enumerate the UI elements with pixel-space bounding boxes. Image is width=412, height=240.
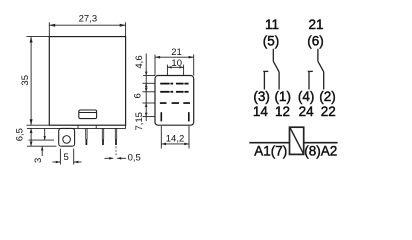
contact pole 1 NC terminal 12: [278, 72, 280, 90]
dimension 27,3: [49, 22, 125, 36]
dimension 3: [29, 129, 55, 156]
base tick 2: [95, 125, 97, 128]
coil wire right: [304, 142, 338, 144]
pin P2 tip: [102, 139, 104, 145]
label window on body: [79, 110, 97, 119]
svg-text:11: 11: [265, 17, 279, 32]
svg-text:24: 24: [299, 104, 315, 119]
relay body front view: [49, 37, 125, 126]
mounting tab: [59, 128, 75, 146]
svg-text:12: 12: [275, 104, 290, 119]
pin P1 tip: [86, 139, 88, 145]
pin P3 shaft: [115, 128, 116, 139]
svg-text:10: 10: [171, 58, 182, 69]
contact pole 2 blade: [318, 61, 324, 72]
contact pole 2 NC terminal 22: [323, 72, 325, 90]
base tick left corner: [125, 125, 127, 128]
dimension 21: [155, 55, 194, 76]
svg-text:0,5: 0,5: [128, 153, 141, 164]
svg-text:21: 21: [308, 17, 323, 32]
svg-text:4,6: 4,6: [134, 55, 145, 68]
dimension 6,5: [27, 128, 57, 146]
svg-text:14,2: 14,2: [166, 133, 185, 144]
bottom view flange bar left: [161, 112, 163, 121]
pin P1 shaft: [86, 128, 87, 139]
bottom view pin row 3: [160, 102, 190, 104]
svg-text:14: 14: [253, 104, 269, 119]
svg-text:7,15: 7,15: [134, 112, 145, 131]
base tick 1: [77, 125, 79, 128]
pin P3 dashed extension: [115, 146, 117, 156]
dimension 5: [53, 149, 82, 165]
contact pole 1 NO terminal 14: [263, 71, 265, 89]
svg-text:6: 6: [133, 93, 144, 98]
relay bottom view body: [155, 76, 194, 126]
dimension 35: [27, 37, 50, 126]
svg-text:(2): (2): [319, 89, 336, 104]
coil diagonal: [290, 128, 303, 154]
contact pole 2 NO terminal 24: [308, 71, 310, 89]
contact pole 1 wire from 11: [263, 49, 279, 90]
pin P2 shaft: [102, 128, 103, 139]
dimension 4,6 / 6 / 7,15 column: [143, 54, 156, 122]
contact pole 2 NO bar: [308, 70, 313, 72]
svg-text:(3): (3): [253, 89, 270, 104]
svg-text:A1(7): A1(7): [254, 143, 287, 158]
svg-text:6,5: 6,5: [14, 128, 25, 141]
contact pole 1 blade: [273, 61, 279, 72]
svg-text:(5): (5): [263, 33, 280, 48]
svg-text:21: 21: [171, 47, 182, 58]
contact pole 2 wire from 21: [308, 49, 324, 90]
svg-text:5: 5: [64, 152, 69, 163]
dimension 0,5: [105, 157, 127, 160]
bottom view pin row 2: [160, 91, 188, 93]
tab hole: [63, 136, 71, 144]
base bottom line: [27, 127, 126, 129]
svg-text:(8)A2: (8)A2: [304, 143, 337, 158]
svg-text:35: 35: [20, 75, 31, 86]
dimension 10: [167, 65, 183, 76]
coil A1-A2: [290, 127, 304, 154]
contact pole 1 NO bar: [263, 70, 268, 72]
svg-text:27,3: 27,3: [79, 14, 98, 25]
svg-text:(6): (6): [307, 33, 324, 48]
coil wire left: [249, 142, 289, 144]
pin P3 tip: [115, 139, 117, 145]
bottom view flange bar right: [188, 112, 190, 121]
svg-text:3: 3: [33, 158, 44, 163]
svg-text:(4): (4): [298, 89, 315, 104]
svg-text:(1): (1): [274, 89, 291, 104]
bottom view pin row 1: [160, 83, 188, 85]
svg-text:22: 22: [321, 104, 336, 119]
dimension 14,2: [161, 126, 189, 149]
